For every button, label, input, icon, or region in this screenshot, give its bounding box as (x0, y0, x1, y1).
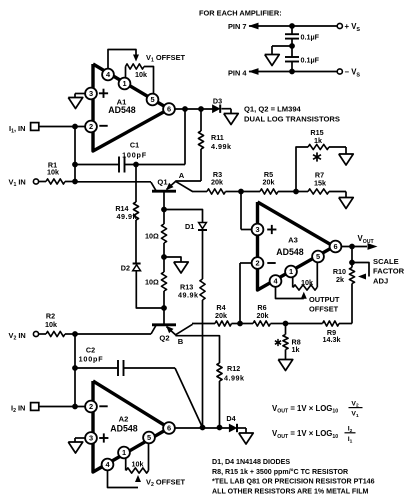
svg-text:AD548: AD548 (110, 423, 137, 433)
svg-text:2: 2 (255, 259, 259, 268)
svg-text:2: 2 (89, 402, 93, 411)
svg-text:0.1µF: 0.1µF (301, 33, 320, 42)
svg-text:R8, R15 1k + 3500 ppm/°C TC RE: R8, R15 1k + 3500 ppm/°C TC RESISTOR (212, 468, 348, 476)
svg-text:20k: 20k (263, 178, 275, 187)
svg-text:B: B (178, 337, 184, 346)
svg-text:R12: R12 (227, 364, 240, 373)
svg-text:AD548: AD548 (276, 247, 303, 257)
svg-text:DUAL LOG TRANSISTORS: DUAL LOG TRANSISTORS (244, 115, 340, 124)
svg-text:D2: D2 (121, 264, 130, 273)
svg-text:SCALE: SCALE (373, 257, 399, 266)
svg-text:20k: 20k (215, 311, 227, 320)
svg-text:49.9k: 49.9k (178, 291, 199, 300)
svg-text:10k: 10k (301, 278, 313, 287)
svg-text:10k: 10k (135, 70, 147, 79)
svg-text:10k: 10k (132, 460, 144, 469)
svg-text:4.99k: 4.99k (211, 142, 232, 151)
svg-text:5: 5 (316, 252, 320, 261)
svg-text:1k: 1k (314, 136, 322, 145)
svg-text:100pF: 100pF (122, 150, 147, 159)
svg-text:OFFSET: OFFSET (309, 304, 339, 313)
svg-text:D1: D1 (185, 222, 194, 231)
svg-text:5: 5 (147, 433, 151, 442)
svg-text:0.1µF: 0.1µF (301, 56, 320, 65)
svg-text:PIN 7: PIN 7 (228, 22, 246, 31)
svg-text:10k: 10k (45, 320, 57, 329)
svg-text:Q1, Q2 = LM394: Q1, Q2 = LM394 (244, 105, 302, 114)
svg-text:10Ω: 10Ω (145, 277, 159, 286)
svg-text:ADJ: ADJ (373, 276, 388, 285)
svg-text:4.99k: 4.99k (224, 373, 245, 382)
svg-text:Q1: Q1 (157, 178, 168, 187)
svg-text:PIN 4: PIN 4 (228, 69, 247, 78)
svg-text:ALL OTHER RESISTORS ARE 1% MET: ALL OTHER RESISTORS ARE 1% METAL FILM (212, 487, 369, 495)
svg-text:3: 3 (89, 434, 93, 443)
svg-text:2k: 2k (336, 275, 344, 284)
svg-text:10Ω: 10Ω (145, 231, 159, 240)
svg-text:A: A (179, 171, 185, 180)
svg-text:Q2: Q2 (159, 334, 169, 343)
svg-text:OUTPUT: OUTPUT (309, 295, 340, 304)
svg-text:10k: 10k (47, 168, 59, 177)
svg-text:1k: 1k (292, 345, 300, 354)
svg-text:14.3k: 14.3k (323, 335, 341, 344)
svg-text:49.9k: 49.9k (117, 212, 138, 221)
svg-text:1: 1 (122, 79, 126, 88)
svg-text:20k: 20k (211, 178, 223, 187)
svg-text:D4: D4 (226, 414, 235, 423)
svg-text:1: 1 (289, 267, 293, 276)
svg-text:FOR EACH AMPLIFIER:: FOR EACH AMPLIFIER: (199, 8, 282, 17)
svg-text:A2: A2 (119, 415, 129, 424)
svg-text:AD548: AD548 (108, 105, 135, 115)
svg-text:15k: 15k (314, 178, 326, 187)
svg-text:3: 3 (89, 89, 93, 98)
svg-text:FACTOR: FACTOR (373, 267, 405, 276)
svg-text:20k: 20k (257, 311, 269, 320)
svg-text:C1: C1 (130, 141, 139, 150)
svg-text:D3: D3 (213, 97, 222, 106)
svg-text:1: 1 (122, 448, 126, 457)
svg-text:V2 IN: V2 IN (9, 331, 26, 342)
svg-text:3: 3 (255, 225, 259, 234)
svg-text:A3: A3 (288, 236, 298, 245)
svg-text:D1, D4 1N4148 DIODES: D1, D4 1N4148 DIODES (212, 458, 290, 466)
svg-text:6: 6 (167, 105, 171, 114)
svg-text:6: 6 (333, 242, 337, 251)
svg-text:100pF: 100pF (79, 354, 104, 363)
svg-text:C2: C2 (86, 346, 95, 355)
svg-text:2: 2 (89, 122, 93, 131)
svg-text:*TEL LAB Q81 OR PRECISION RESI: *TEL LAB Q81 OR PRECISION RESISTOR PT146 (212, 478, 375, 486)
svg-text:6: 6 (167, 424, 171, 433)
svg-text:R11: R11 (211, 133, 224, 142)
svg-text:5: 5 (150, 95, 154, 104)
